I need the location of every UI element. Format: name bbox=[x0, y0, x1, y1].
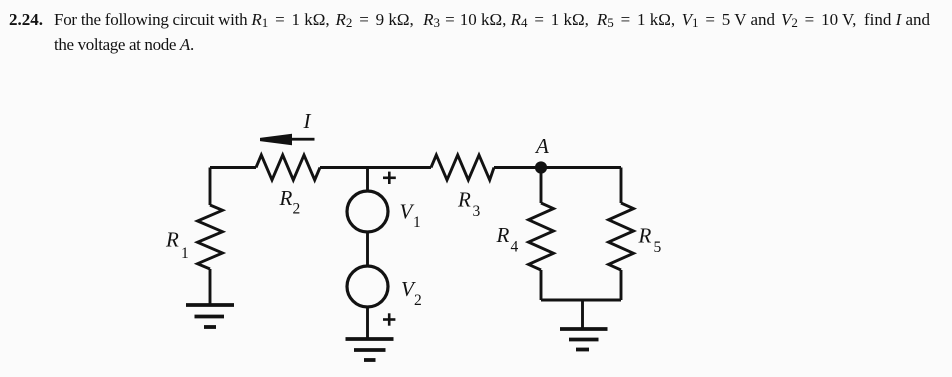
wire node A down to R4 bbox=[540, 168, 543, 204]
wire V2 to ground bbox=[366, 307, 369, 339]
wire R1 to ground bbox=[209, 269, 212, 305]
wire bottom ground stem bbox=[581, 300, 584, 329]
svg-text:2: 2 bbox=[293, 201, 301, 218]
svg-text:1: 1 bbox=[181, 245, 189, 262]
svg-text:5: 5 bbox=[654, 239, 662, 256]
svg-text:3: 3 bbox=[473, 203, 481, 220]
problem statement line 2 bbox=[54, 36, 194, 53]
svg-text:A: A bbox=[534, 134, 549, 158]
wire R4 to bottom bbox=[540, 270, 543, 300]
wire R5 to bottom bbox=[620, 270, 623, 300]
ground (left, below R1) bbox=[186, 305, 234, 327]
ground (right, below R4/R5) bbox=[560, 329, 608, 350]
current arrow I bbox=[260, 134, 315, 146]
svg-text:I: I bbox=[303, 109, 312, 133]
resistor R1 bbox=[198, 205, 223, 269]
svg-text:R: R bbox=[496, 223, 510, 247]
resistor R2 bbox=[256, 155, 320, 180]
resistor R4 bbox=[529, 203, 554, 270]
wire R3 to top-right corner bbox=[494, 166, 621, 169]
voltage source V1 bbox=[347, 191, 388, 232]
wire top-left horizontal (corner to R2) bbox=[210, 166, 256, 169]
node A junction dot bbox=[535, 161, 547, 173]
svg-text:R: R bbox=[165, 227, 179, 251]
svg-text:2: 2 bbox=[414, 292, 422, 309]
plus sign V1 bbox=[383, 172, 396, 184]
wire right vertical (corner to R5) bbox=[620, 168, 623, 204]
resistor R5 bbox=[609, 203, 634, 270]
plus sign V2 bbox=[383, 313, 395, 325]
wire V1 to V2 bbox=[366, 232, 369, 266]
svg-text:R: R bbox=[457, 187, 471, 211]
svg-text:4: 4 bbox=[511, 239, 519, 256]
wire R2 to R3 bbox=[320, 166, 431, 169]
ground (middle, below V2) bbox=[346, 339, 394, 360]
problem statement line 1 bbox=[9, 11, 43, 28]
wire bottom (R4 to R5) bbox=[541, 299, 621, 302]
svg-text:R: R bbox=[638, 224, 652, 248]
voltage source V2 bbox=[347, 266, 388, 307]
resistor R3 bbox=[431, 155, 494, 180]
svg-text:R: R bbox=[279, 186, 293, 210]
wire middle branch top bbox=[366, 168, 369, 192]
wire left vertical (corner to R1) bbox=[209, 168, 212, 206]
svg-text:1: 1 bbox=[413, 214, 421, 231]
